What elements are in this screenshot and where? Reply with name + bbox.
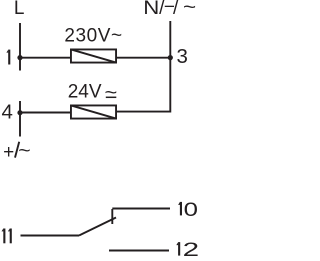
svg-text:~: ~ [105,82,118,103]
svg-text:230V~: 230V~ [64,25,122,46]
svg-text:0: 0 [184,198,198,220]
svg-text:~: ~ [183,0,196,18]
svg-text:+: + [3,142,14,163]
svg-text:2: 2 [183,239,199,260]
svg-text:L: L [14,0,25,19]
svg-text:24V: 24V [68,82,102,103]
svg-text:3: 3 [177,45,188,68]
svg-text:4: 4 [2,101,13,124]
svg-text:/: / [173,0,179,19]
svg-text:N: N [143,0,159,18]
svg-text:~: ~ [18,141,30,162]
